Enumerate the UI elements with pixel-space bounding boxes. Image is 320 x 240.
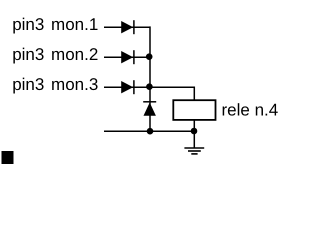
wire row3 to relay top [150, 87, 194, 100]
svg-text:pin3 mon.1: pin3 mon.1 [12, 15, 98, 34]
svg-text:rele n.4: rele n.4 [222, 101, 279, 120]
diode D2 [121, 50, 134, 64]
wire relay bottom to ground [193, 120, 195, 148]
wire bus vertical [149, 26, 151, 131]
node corner marker (transparent patch rendered black) [2, 151, 14, 164]
relay coil box U1 [173, 100, 215, 120]
node junction row2 [146, 53, 153, 60]
svg-text:pin3 mon.2: pin3 mon.2 [12, 45, 98, 64]
wire row3 from pin3 mon.3 to bus [104, 86, 150, 88]
node junction row3 [146, 83, 153, 90]
diode D3 [121, 80, 134, 94]
svg-text:pin3 mon.3: pin3 mon.3 [12, 75, 98, 94]
wire bottom rail [104, 130, 194, 132]
wire row2 from pin3 mon.2 to bus [104, 56, 150, 58]
diode D1 [121, 20, 134, 34]
node junction relay-bottom [191, 128, 198, 135]
node junction bus-bottom [147, 128, 154, 135]
wire row1 from pin3 mon.1 to bus [104, 26, 150, 28]
ground [184, 148, 204, 154]
diode D4 flyback on bus [143, 102, 156, 116]
